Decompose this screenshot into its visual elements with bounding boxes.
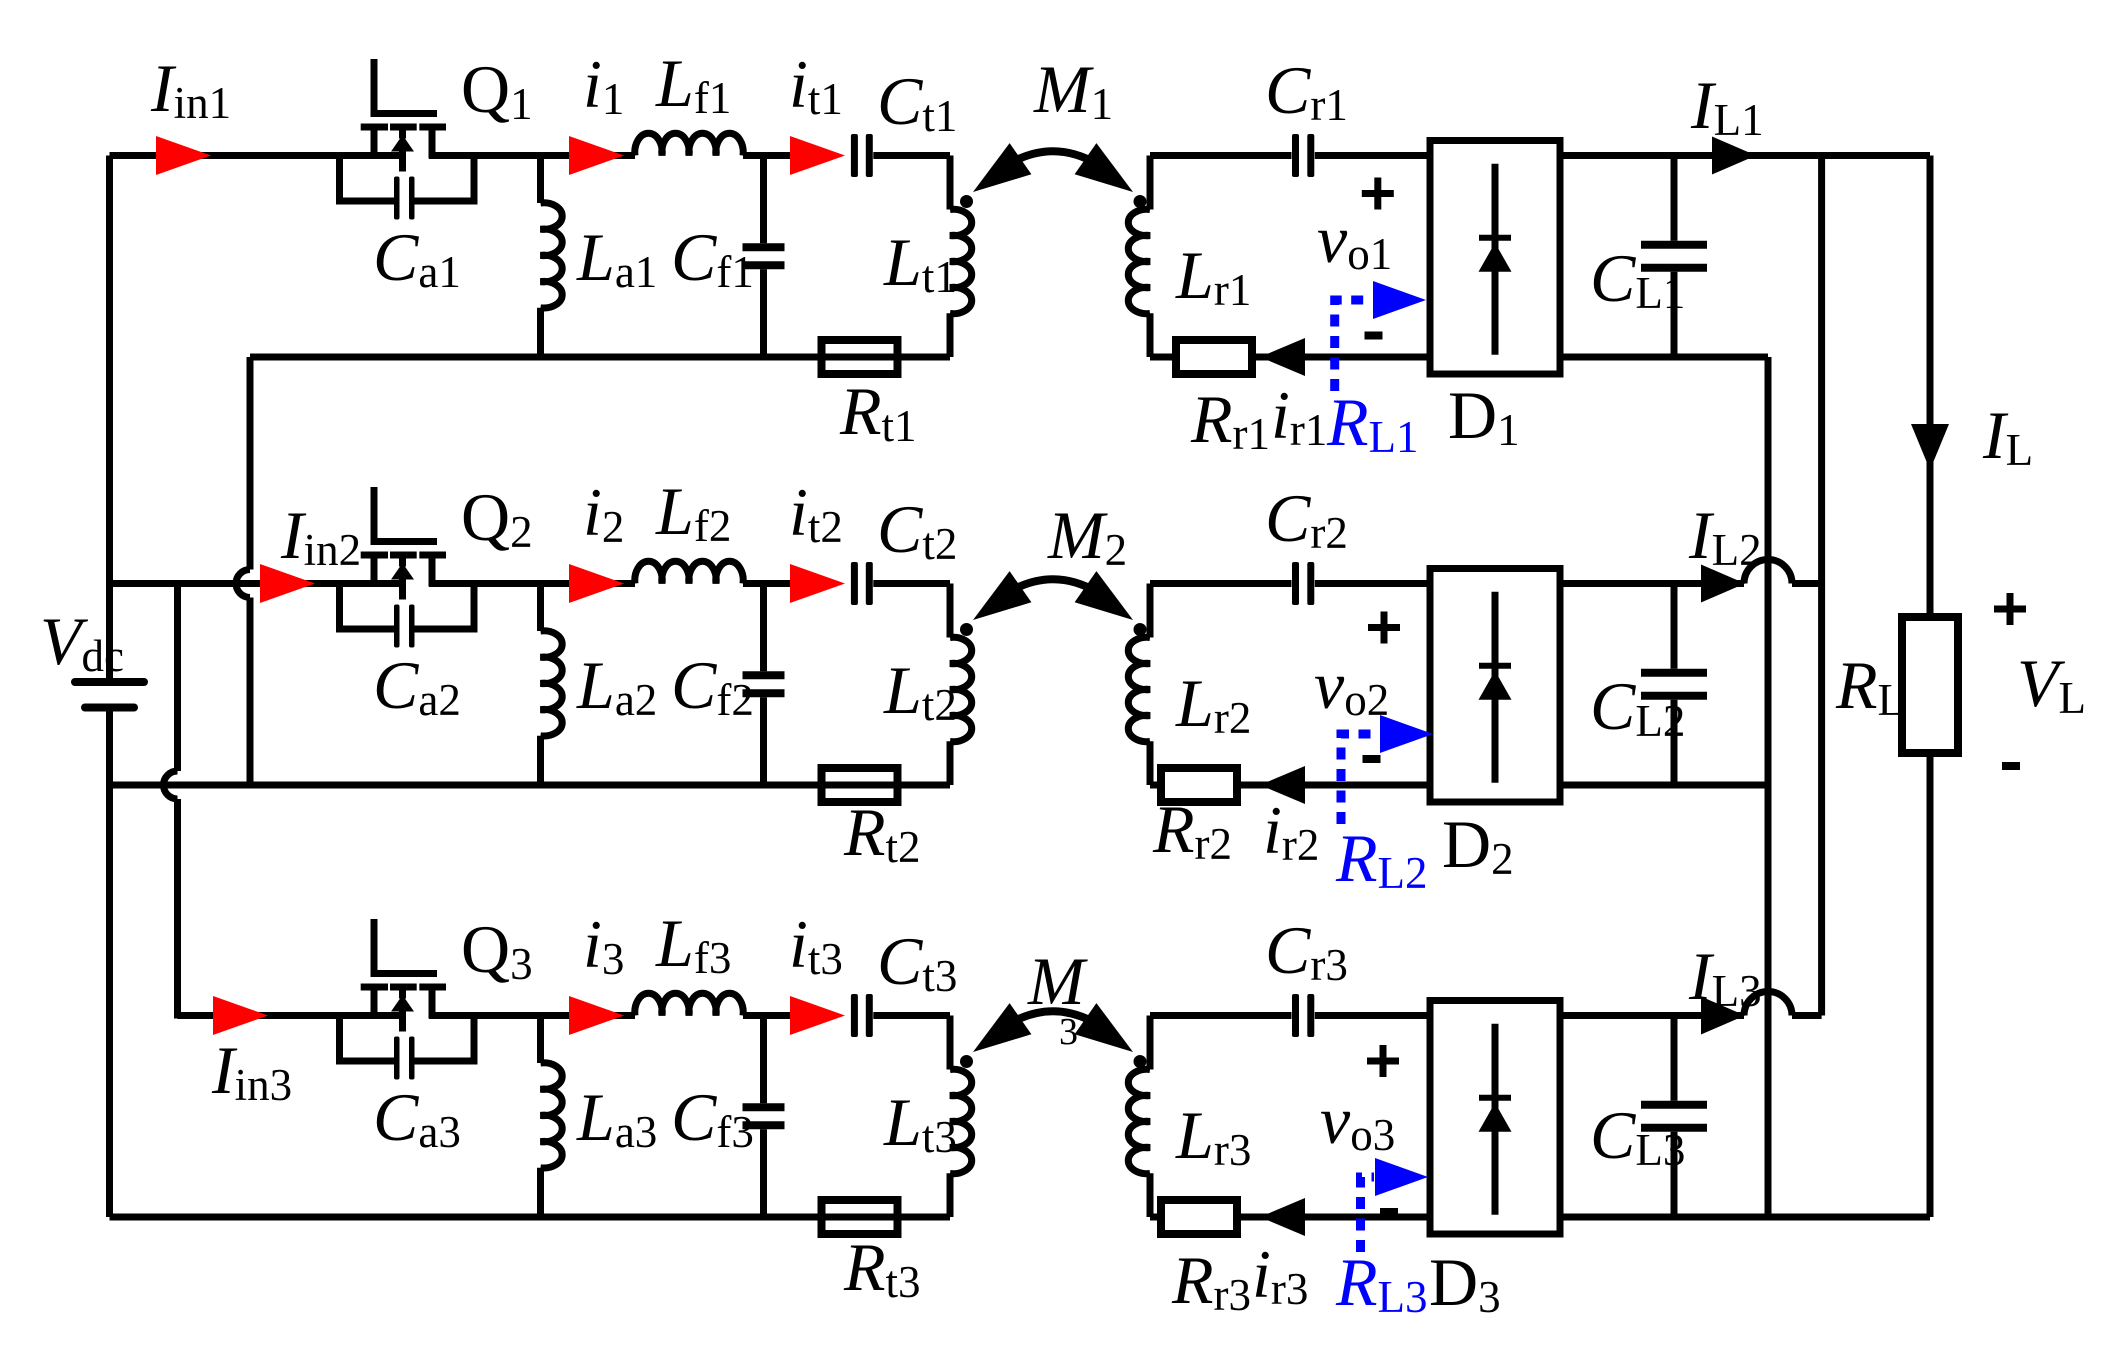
capacitor Cr1 <box>1292 134 1430 177</box>
current arrow it2 <box>790 564 845 603</box>
label vo1 <box>1317 201 1392 279</box>
wire <box>1150 1214 1161 1221</box>
capacitor CL2 <box>1641 584 1707 786</box>
label Iin3 <box>211 1032 292 1110</box>
wire left bus top (Vdc plus to rows 1,2) <box>106 156 113 679</box>
label Lr1 <box>1175 237 1251 315</box>
wire <box>743 580 790 587</box>
capacitor Ca2 <box>340 584 475 648</box>
resistor Rr3 <box>1161 1200 1237 1234</box>
label IL3 <box>1688 938 1762 1016</box>
label RL1 <box>1326 384 1419 462</box>
wire rectifier D1 bottom to bus B <box>1560 354 1768 361</box>
label Rt2 <box>843 794 921 872</box>
label CL1 <box>1590 240 1685 318</box>
label D3 <box>1429 1244 1501 1322</box>
label M1 <box>1033 51 1113 129</box>
inductor Lr1 <box>1128 156 1150 358</box>
current arrow ir3 <box>1260 1198 1305 1236</box>
label i3 <box>583 906 624 984</box>
wire <box>743 1012 790 1019</box>
inductor Lf1 <box>635 133 743 155</box>
current arrow IL1 <box>1712 137 1756 175</box>
label i2 <box>583 474 624 552</box>
mutual coupling M2 <box>973 571 1133 620</box>
svg-text:3: 3 <box>1059 1011 1078 1053</box>
current arrow IL <box>1911 424 1949 470</box>
label M2 <box>1047 497 1127 575</box>
label Ca3 <box>373 1079 461 1157</box>
capacitor Ct1 <box>851 134 950 177</box>
wire load to bottom rail <box>1927 753 1934 1217</box>
rectifier D2 <box>1430 569 1560 803</box>
label Rt3 <box>843 1229 921 1307</box>
plus sign vo3 <box>1367 1045 1399 1077</box>
label Cr2 <box>1265 480 1348 558</box>
label D2 <box>1442 806 1514 884</box>
dot Lr2 <box>1134 623 1147 636</box>
inductor Lt3 <box>950 1016 972 1218</box>
label Cf3 <box>671 1079 754 1157</box>
plus sign vo1 <box>1362 178 1394 210</box>
label Ca2 <box>373 647 461 725</box>
wire <box>429 152 635 159</box>
mutual coupling M3 <box>973 1003 1133 1052</box>
label Rr2 <box>1152 791 1232 869</box>
capacitor Ct2 <box>851 562 950 605</box>
label Cf2 <box>671 647 754 725</box>
label it1 <box>789 46 843 124</box>
wire row1 bottom rail <box>250 354 950 361</box>
label Vdc <box>40 603 124 681</box>
resistor Rr1 <box>1176 340 1252 374</box>
capacitor Cf2 <box>743 584 785 786</box>
wire rectifier D1 output <box>1560 152 1930 159</box>
mutual coupling M1 <box>973 143 1133 192</box>
plus sign VL <box>1994 593 2026 625</box>
wire row2 input <box>110 580 407 587</box>
current arrow Iin3 <box>213 996 268 1035</box>
inductor Lf3 <box>635 993 743 1015</box>
resistor Rr2 <box>1161 768 1237 802</box>
label RL3 <box>1335 1244 1428 1322</box>
inductor La1 <box>541 156 563 358</box>
wire <box>429 1012 635 1019</box>
label Lf1 <box>655 45 731 123</box>
label Q3 <box>461 911 533 989</box>
bus B minus outputs <box>1765 357 1772 1217</box>
label IL1 <box>1690 67 1764 145</box>
label vo3 <box>1320 1082 1395 1160</box>
label La3 <box>576 1079 657 1157</box>
current arrow it1 <box>790 136 845 175</box>
transistor Q2 <box>361 487 446 600</box>
label Rr1 <box>1190 381 1270 459</box>
wire <box>1150 782 1161 789</box>
label Rr3 <box>1171 1242 1251 1320</box>
resistor RL <box>1902 617 1958 753</box>
label IL <box>1982 397 2033 475</box>
current arrow IL2 <box>1701 565 1745 603</box>
label Lf3 <box>655 905 731 983</box>
wire row1 return to row2 rail <box>236 357 250 785</box>
capacitor CL3 <box>1641 1016 1707 1218</box>
label Iin1 <box>150 50 231 128</box>
wire <box>743 152 790 159</box>
label Cr1 <box>1265 52 1348 130</box>
dot Lt2 <box>960 623 973 636</box>
label i1 <box>583 46 624 124</box>
inductor Lt2 <box>950 584 972 786</box>
capacitor Ca1 <box>340 156 475 220</box>
minus sign vo3 <box>1380 1208 1398 1216</box>
label Cr3 <box>1265 912 1348 990</box>
capacitor Ct3 <box>851 994 950 1037</box>
load branch wire <box>1927 156 1934 618</box>
wire feeder row2-to-row3 <box>164 584 178 1019</box>
label RL <box>1835 647 1905 725</box>
wire <box>1237 1214 1430 1221</box>
minus sign vo2 <box>1363 755 1381 763</box>
label Lr3 <box>1175 1097 1251 1175</box>
current arrow Iin1 <box>156 136 211 175</box>
label M3 <box>1027 943 1088 1053</box>
label Lt3 <box>883 1084 957 1162</box>
wire <box>1150 580 1292 587</box>
inductor La2 <box>541 584 563 786</box>
label Rt1 <box>839 373 917 451</box>
battery Vdc <box>71 678 148 712</box>
dot Lt1 <box>960 195 973 208</box>
label CL3 <box>1590 1097 1685 1175</box>
resistor Rt2 <box>822 768 898 802</box>
label CL2 <box>1590 668 1685 746</box>
wire <box>1150 152 1292 159</box>
wire row3 bottom rail <box>110 1214 951 1221</box>
capacitor Cf1 <box>743 156 785 358</box>
label Lt2 <box>883 652 957 730</box>
dot Lt3 <box>960 1055 973 1068</box>
capacitor Cr2 <box>1292 562 1430 605</box>
wire row1 input <box>110 152 407 159</box>
label Lr2 <box>1175 665 1251 743</box>
current arrow IL3 <box>1701 997 1745 1035</box>
label D1 <box>1448 377 1520 455</box>
label Q2 <box>461 479 533 557</box>
capacitor Cr3 <box>1292 994 1430 1037</box>
label it2 <box>789 474 843 552</box>
label La2 <box>576 647 657 725</box>
wire left bus bottom (Vdc minus) <box>106 712 113 1218</box>
resistor Rt1 <box>822 340 898 374</box>
inductor La3 <box>541 1016 563 1218</box>
label it3 <box>789 906 843 984</box>
label Ct2 <box>877 491 957 569</box>
inductor Lf2 <box>635 561 743 583</box>
plus sign vo2 <box>1368 612 1400 644</box>
current arrow i1 <box>569 136 624 175</box>
wire rectifier D2 output <box>1560 560 1822 584</box>
label La1 <box>576 219 657 297</box>
capacitor Ca3 <box>340 1016 475 1080</box>
label RL2 <box>1335 820 1428 898</box>
resistor Rt3 <box>822 1200 898 1234</box>
current arrow i3 <box>569 996 624 1035</box>
label Lt1 <box>883 224 957 302</box>
label Cf1 <box>671 219 754 297</box>
label Iin2 <box>280 497 361 575</box>
current arrow ir1 <box>1260 338 1305 376</box>
wire rectifier D3 bottom rail <box>1560 1214 1930 1221</box>
inductor Lr2 <box>1128 584 1150 786</box>
label ir3 <box>1252 1236 1308 1314</box>
transistor Q1 <box>361 59 446 172</box>
blue arrow RL2 <box>1341 715 1433 824</box>
rectifier D3 <box>1430 1001 1560 1235</box>
current arrow it3 <box>790 996 845 1035</box>
label IL2 <box>1688 497 1762 575</box>
current arrow i2 <box>569 564 624 603</box>
dot Lr1 <box>1134 195 1147 208</box>
blue arrow RL3 <box>1361 1158 1429 1252</box>
label Ca1 <box>373 219 461 297</box>
capacitor Cf3 <box>743 1016 785 1218</box>
minus sign VL <box>2002 762 2020 770</box>
blue arrow RL1 <box>1335 281 1426 391</box>
label ir2 <box>1263 792 1319 870</box>
wire <box>1252 354 1430 361</box>
label Lf2 <box>655 473 731 551</box>
rectifier D1 <box>1430 141 1560 375</box>
label VL <box>2017 645 2086 723</box>
wire row2 bottom rail <box>110 782 951 789</box>
wire <box>429 580 635 587</box>
transistor Q3 <box>361 919 446 1032</box>
bus A plus outputs <box>1818 156 1825 1016</box>
wire <box>1237 782 1430 789</box>
label ir1 <box>1271 377 1327 455</box>
current arrow Iin2 <box>260 564 315 603</box>
inductor Lt1 <box>950 156 972 358</box>
label Q1 <box>461 51 533 129</box>
wire <box>1150 354 1176 361</box>
label Ct1 <box>877 63 957 141</box>
minus sign vo1 <box>1365 332 1383 340</box>
capacitor CL1 <box>1641 156 1707 358</box>
svg-text:M: M <box>1027 943 1088 1019</box>
label Ct3 <box>877 923 957 1001</box>
wire rectifier D2 bottom to bus B <box>1560 782 1768 789</box>
dot Lr3 <box>1134 1055 1147 1068</box>
wire rectifier D3 output <box>1560 992 1822 1016</box>
wire row3 input <box>178 1012 407 1019</box>
current arrow ir2 <box>1260 766 1305 804</box>
wire <box>1150 1012 1292 1019</box>
inductor Lr3 <box>1128 1016 1150 1218</box>
label vo2 <box>1314 647 1389 725</box>
